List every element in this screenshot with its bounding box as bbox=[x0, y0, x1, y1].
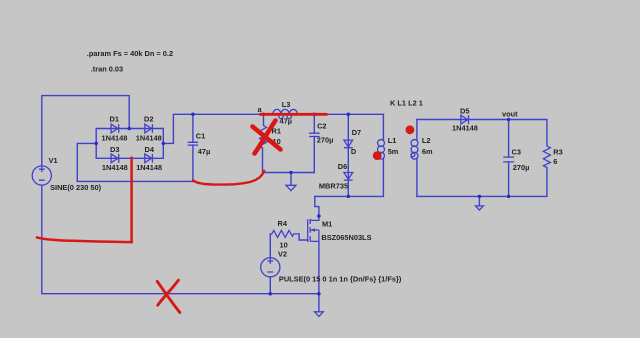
svg-text:10: 10 bbox=[280, 240, 288, 249]
svg-text:BSZ065N03LS: BSZ065N03LS bbox=[321, 233, 371, 242]
red annotation vertical from bridge bbox=[130, 158, 133, 243]
svg-text:R3: R3 bbox=[553, 148, 562, 157]
wire secondary bottom bbox=[417, 168, 547, 197]
svg-text:L1: L1 bbox=[388, 136, 397, 145]
svg-text:D1: D1 bbox=[110, 115, 119, 124]
node dot bridge left bbox=[94, 142, 98, 146]
svg-text:L3: L3 bbox=[282, 100, 291, 109]
red annotation dot near L2 bbox=[406, 125, 415, 134]
wire bridge right tee to top rail bbox=[163, 114, 383, 143]
wire bridge top row bbox=[96, 128, 163, 130]
svg-text:C2: C2 bbox=[317, 122, 326, 131]
svg-text:D3: D3 bbox=[110, 145, 119, 154]
node dot vout bbox=[507, 118, 511, 122]
node dot D7 top bbox=[347, 113, 351, 117]
svg-text:1N4148: 1N4148 bbox=[452, 124, 478, 133]
wire bridge right bracket bbox=[162, 129, 164, 159]
diode D6 bbox=[319, 162, 353, 191]
node dot a bbox=[262, 113, 266, 117]
svg-text:D2: D2 bbox=[144, 115, 153, 124]
wire R1 bottom bbox=[263, 148, 315, 173]
red annotation thick line over L3 bbox=[260, 113, 326, 116]
node dot C2 top bbox=[313, 113, 317, 117]
wire bottom mid rail D6 L1 bbox=[315, 195, 384, 197]
svg-text:vout: vout bbox=[502, 110, 518, 119]
svg-text:C3: C3 bbox=[512, 148, 521, 157]
capacitor C3 bbox=[503, 120, 529, 197]
ground below M1 bbox=[315, 294, 324, 317]
diode D3 bbox=[102, 145, 128, 172]
red annotation X over R1 bbox=[253, 121, 281, 154]
wire V2 leads bbox=[269, 234, 271, 294]
red annotation curve C1 to R1 bottom bbox=[193, 171, 264, 185]
resistor R1 bbox=[260, 126, 281, 148]
wire C1 branch bbox=[192, 114, 194, 181]
wire bridge left bracket bbox=[95, 129, 97, 159]
node dot bridge top mid bbox=[127, 127, 131, 131]
svg-text:47µ: 47µ bbox=[280, 116, 292, 125]
diode D4 bbox=[136, 145, 162, 172]
voltage source V2 bbox=[261, 250, 402, 284]
svg-text:D: D bbox=[351, 147, 357, 156]
red annotation squiggle to V1 bbox=[37, 237, 132, 242]
node dot D6 bottom bbox=[347, 195, 351, 199]
svg-text:V1: V1 bbox=[49, 156, 58, 165]
wire secondary top bbox=[417, 120, 547, 146]
svg-text:6m: 6m bbox=[422, 147, 433, 156]
node dot V2 bottom bbox=[269, 292, 273, 296]
svg-text:C1: C1 bbox=[196, 131, 205, 140]
svg-text:1N4148: 1N4148 bbox=[136, 163, 162, 172]
wire V1 top loop bbox=[42, 96, 129, 167]
red annotation dot near L1 bbox=[373, 151, 382, 160]
svg-text:.tran 0.03: .tran 0.03 bbox=[91, 64, 123, 73]
svg-text:6: 6 bbox=[553, 157, 557, 166]
wire D7 D6 branch bbox=[347, 114, 349, 196]
node dot C1 top bbox=[191, 113, 195, 117]
svg-text:D6: D6 bbox=[338, 162, 347, 171]
diode D2 bbox=[136, 115, 162, 143]
wire bridge bottom row bbox=[96, 157, 163, 159]
svg-text:D7: D7 bbox=[352, 128, 361, 137]
svg-text:R4: R4 bbox=[278, 219, 288, 228]
svg-text:K L1 L2 1: K L1 L2 1 bbox=[390, 99, 423, 108]
svg-text:V2: V2 bbox=[278, 250, 287, 259]
inductor L3 bbox=[273, 100, 298, 125]
ground secondary bbox=[476, 196, 484, 210]
svg-text:.param Fs = 40k Dn = 0.2: .param Fs = 40k Dn = 0.2 bbox=[87, 49, 173, 58]
svg-text:47µ: 47µ bbox=[198, 147, 210, 156]
svg-text:270µ: 270µ bbox=[513, 163, 530, 172]
svg-text:1N4148: 1N4148 bbox=[102, 163, 128, 172]
svg-text:SINE(0 230 50): SINE(0 230 50) bbox=[50, 183, 101, 192]
diode D7 bbox=[344, 128, 361, 156]
svg-text:D4: D4 bbox=[145, 145, 155, 154]
node dot gnd secondary bbox=[478, 195, 482, 199]
node dot M1 drain bbox=[317, 214, 321, 218]
svg-text:PULSE(0 15 0 1n 1n {Dn/Fs} {1/: PULSE(0 15 0 1n 1n {Dn/Fs} {1/Fs}) bbox=[279, 275, 402, 284]
capacitor C1 bbox=[188, 131, 211, 156]
wire R4 to gate bbox=[299, 234, 308, 240]
wire jog to M1 drain bbox=[315, 196, 319, 216]
node dot gnd mid bbox=[289, 171, 293, 175]
svg-text:1N4148: 1N4148 bbox=[136, 133, 162, 142]
wire bridge left tee to C1 bottom bbox=[77, 143, 193, 181]
wire R1 branch top bbox=[263, 114, 265, 125]
svg-text:D5: D5 bbox=[460, 106, 469, 115]
svg-text:5m: 5m bbox=[388, 147, 399, 156]
diode D5 bbox=[452, 106, 478, 132]
diode D1 bbox=[102, 115, 128, 143]
resistor R3 bbox=[543, 146, 562, 168]
svg-text:270µ: 270µ bbox=[317, 136, 334, 145]
wire C2 bottom lead bbox=[313, 137, 315, 173]
svg-text:MBR735: MBR735 bbox=[319, 182, 348, 191]
wire M1 source down bbox=[318, 241, 320, 293]
node dot bridge right bbox=[162, 142, 166, 146]
resistor R4 bbox=[270, 219, 299, 249]
node dot M1 source rail bbox=[317, 292, 321, 296]
svg-text:L2: L2 bbox=[422, 136, 431, 145]
mosfet M1 bbox=[308, 216, 372, 242]
ground below C2 wire bbox=[286, 173, 296, 191]
capacitor C2 bbox=[309, 114, 333, 144]
svg-text:1N4148: 1N4148 bbox=[102, 133, 128, 142]
node dot C3 bottom bbox=[507, 195, 511, 199]
wire V1 bottom to ground rail bbox=[42, 185, 319, 294]
svg-text:M1: M1 bbox=[322, 220, 332, 229]
inductor L2 bbox=[411, 120, 433, 197]
svg-text:a: a bbox=[258, 105, 263, 114]
red annotation X on bottom rail bbox=[157, 280, 180, 312]
voltage source V1 bbox=[32, 156, 101, 192]
inductor L1 bbox=[378, 114, 399, 196]
